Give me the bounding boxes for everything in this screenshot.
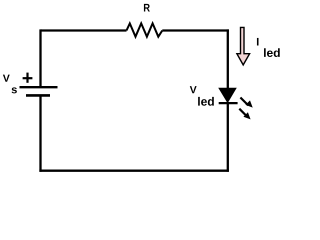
wire right vertical lower	[227, 103, 229, 172]
LED light ray arrow 1	[240, 98, 252, 108]
label led subscript of Iled	[264, 48, 280, 57]
wire right vertical upper	[227, 29, 229, 89]
LED light ray arrow 2	[239, 109, 250, 120]
wire left vertical upper	[39, 29, 41, 87]
wire bottom	[39, 170, 229, 172]
battery V_s negative plate	[26, 94, 50, 97]
LED D1 triangle anode	[219, 88, 236, 102]
resistor R zigzag	[127, 23, 163, 36]
wire left vertical lower	[39, 95, 41, 171]
LED D1 cathode bar	[219, 102, 238, 104]
label s subscript of Vs	[12, 87, 17, 93]
label V of Vled	[190, 86, 197, 93]
wire top-right segment	[162, 29, 229, 31]
resistor R value label	[144, 4, 150, 12]
current arrow I_led (block arrow)	[237, 27, 250, 65]
label led subscript of Vled	[198, 97, 214, 106]
wire top-left segment	[41, 29, 127, 31]
battery plus sign	[23, 77, 33, 79]
label I of Iled	[257, 38, 259, 46]
battery V_s positive plate	[20, 86, 58, 88]
label V of Vs	[3, 75, 10, 82]
